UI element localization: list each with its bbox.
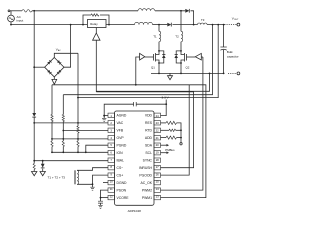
svg-text:capacitor: capacitor <box>227 54 239 58</box>
svg-text:VAC: VAC <box>117 121 124 125</box>
svg-text:13: 13 <box>156 194 160 198</box>
svg-text:VFB: VFB <box>117 128 124 132</box>
svg-text:PSON: PSON <box>117 188 127 192</box>
svg-text:PWM1: PWM1 <box>142 196 152 200</box>
svg-text:INRUSH: INRUSH <box>139 166 153 170</box>
svg-text:ADD: ADD <box>145 136 153 140</box>
svg-text:VOUT: VOUT <box>232 16 239 21</box>
svg-text:16: 16 <box>156 172 160 176</box>
svg-text:7: 7 <box>110 158 112 162</box>
svg-text:Relay: Relay <box>90 22 98 26</box>
svg-text:Bulk: Bulk <box>227 50 233 54</box>
svg-text:PGND: PGND <box>117 143 127 147</box>
svg-text:Q1: Q1 <box>151 66 155 70</box>
svg-text:23: 23 <box>156 121 160 125</box>
svg-text:CS−: CS− <box>117 166 124 170</box>
svg-text:6: 6 <box>110 150 112 154</box>
svg-text:SCL: SCL <box>145 151 152 155</box>
svg-text:RTD: RTD <box>145 128 152 132</box>
svg-text:AGND: AGND <box>117 114 127 118</box>
svg-text:CS+: CS+ <box>117 173 124 177</box>
svg-text:PWM2: PWM2 <box>142 188 152 192</box>
svg-text:10: 10 <box>110 180 114 184</box>
svg-text:21: 21 <box>156 136 160 140</box>
svg-text:VDD: VDD <box>145 114 153 118</box>
svg-text:2: 2 <box>110 121 112 125</box>
svg-text:ADP1048: ADP1048 <box>128 209 142 213</box>
svg-text:15: 15 <box>156 180 160 184</box>
svg-text:3.3 V: 3.3 V <box>162 96 170 100</box>
svg-text:RES: RES <box>145 121 153 125</box>
svg-text:17: 17 <box>156 165 160 169</box>
svg-text:input: input <box>17 19 24 23</box>
svg-text:T2: T2 <box>175 35 179 39</box>
svg-text:T1: T1 <box>153 35 157 39</box>
svg-text:ION: ION <box>117 151 124 155</box>
svg-text:Q2: Q2 <box>186 66 190 70</box>
svg-text:PGOOD: PGOOD <box>139 173 152 177</box>
svg-text:DGND: DGND <box>117 181 128 185</box>
svg-text:5: 5 <box>110 143 112 147</box>
svg-text:22: 22 <box>156 129 160 133</box>
svg-text:3: 3 <box>110 129 112 133</box>
svg-text:PMBus: PMBus <box>165 148 175 152</box>
svg-text:SDA: SDA <box>145 143 153 147</box>
svg-text:SYNC: SYNC <box>143 158 153 162</box>
svg-text:OVP: OVP <box>117 136 125 140</box>
svg-text:T1 + T2 + T3: T1 + T2 + T3 <box>48 175 66 179</box>
svg-text:AC_OK: AC_OK <box>141 181 153 185</box>
svg-text:12: 12 <box>110 194 114 198</box>
svg-text:IBAL: IBAL <box>117 158 124 162</box>
svg-text:20: 20 <box>156 143 160 147</box>
svg-text:VCORE: VCORE <box>117 196 130 200</box>
svg-text:T3: T3 <box>201 18 205 22</box>
svg-text:11: 11 <box>110 187 113 191</box>
svg-text:18: 18 <box>156 158 160 162</box>
svg-text:14: 14 <box>156 187 160 191</box>
svg-text:19: 19 <box>156 150 160 154</box>
svg-text:VAC: VAC <box>56 48 61 53</box>
svg-text:24: 24 <box>156 114 160 118</box>
svg-text:4: 4 <box>110 136 112 140</box>
